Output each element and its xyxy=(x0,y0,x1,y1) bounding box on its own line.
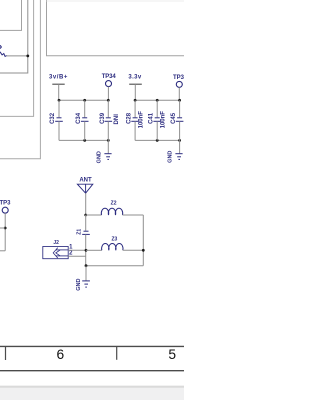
wire (J2 pin 1 to antenna node) xyxy=(68,249,86,251)
capacitor C41 100nF xyxy=(149,100,167,140)
svg-text:C34: C34 xyxy=(76,112,82,124)
junction (C41 top) xyxy=(156,99,159,102)
sheet border zone tick mid xyxy=(116,347,118,360)
svg-text:100nF: 100nF xyxy=(139,111,145,129)
junction (3.3v tap / C28) xyxy=(134,99,137,102)
svg-text:100nF: 100nF xyxy=(161,111,167,129)
junction (bottom bus / GND) xyxy=(85,264,88,267)
junction (C34 top) xyxy=(83,99,86,102)
wire (gray net, vertical x=34.5 turning left at y=114) xyxy=(0,0,34,116)
svg-text:3v/B+: 3v/B+ xyxy=(49,74,68,80)
wire (left group bottom bus to GND) xyxy=(59,139,108,141)
wire (3v/B+ stem) xyxy=(58,84,60,100)
wire (bottom return bus) xyxy=(86,265,143,267)
test point TP34 pad xyxy=(106,81,112,87)
svg-text:3.3v: 3.3v xyxy=(128,75,142,81)
hierarchical block outline (large, top centre-right) xyxy=(47,0,185,56)
svg-text:GND: GND xyxy=(76,278,82,290)
svg-text:C41: C41 xyxy=(149,112,155,124)
resistor R? (partial, cut at left edge) xyxy=(0,45,1,48)
sheet border outer line xyxy=(0,370,184,372)
ground (right group) xyxy=(168,140,183,162)
wire (3v/B+ rail top bus) xyxy=(59,99,108,101)
svg-text:GND: GND xyxy=(168,151,174,163)
junction (antenna node) xyxy=(84,214,87,217)
junction (J2 pin 1 / Z1 / Z3) xyxy=(85,249,88,252)
power symbol 3v/B+ bar xyxy=(52,83,64,85)
wire (branch to left edge at y=251) xyxy=(0,250,5,252)
junction (C39 top / TP34) xyxy=(107,99,110,102)
hierarchical block top edge (faint) xyxy=(47,0,185,2)
sheet border inner line xyxy=(0,345,184,347)
svg-text:C39: C39 xyxy=(100,112,106,124)
test point TP3x pad xyxy=(176,81,182,87)
junction (C45 bottom / GND) xyxy=(178,139,181,142)
inductor Z2 xyxy=(86,201,144,215)
sheet border zone tick left xyxy=(5,347,7,360)
svg-text:6: 6 xyxy=(56,347,64,362)
ground (left group) xyxy=(97,140,112,163)
svg-text:GND: GND xyxy=(97,151,103,163)
ground (main RF) xyxy=(76,266,90,291)
svg-text:TP34: TP34 xyxy=(102,74,117,80)
wire (resistor to vertical net) xyxy=(7,55,28,57)
junction (C39 bottom / GND) xyxy=(107,139,110,142)
wire (3.3v rail top bus) xyxy=(135,99,180,101)
capacitor Z1 xyxy=(77,215,90,266)
capacitor C45 (value cut at right edge) xyxy=(171,100,183,140)
svg-text:Z2: Z2 xyxy=(111,201,117,207)
junction (C41 bottom) xyxy=(156,139,159,142)
junction (3v/B+ tap / C32) xyxy=(58,99,61,102)
wire (gray net, vertical x=28 turning left at y=71) xyxy=(0,0,28,73)
svg-text:ANT: ANT xyxy=(79,178,92,184)
wire (gray net, vertical x=41.5 turning left at y=154) xyxy=(0,0,40,159)
wire (3.3v stem) xyxy=(134,84,136,100)
junction (C34 bottom) xyxy=(83,139,86,142)
wire (J2 pin 2 to ground net) xyxy=(68,255,86,257)
wire (right group bottom bus to GND) xyxy=(135,139,180,141)
test point TP3 pad xyxy=(2,207,8,213)
capacitor C34 xyxy=(76,100,88,140)
junction (Z3 right / vertical return) xyxy=(142,249,145,252)
capacitor C28 100nF xyxy=(126,100,144,140)
wire (antenna feed) xyxy=(85,193,87,215)
wire (TP3 down to off-sheet) xyxy=(4,213,6,251)
svg-text:C45: C45 xyxy=(171,112,177,124)
power symbol 3.3v bar xyxy=(129,83,142,85)
antenna ANT symbol xyxy=(77,184,92,193)
svg-text:C28: C28 xyxy=(126,112,132,124)
svg-text:Z1: Z1 xyxy=(77,229,83,235)
svg-text:5: 5 xyxy=(168,347,176,362)
connector J2 xyxy=(43,240,68,259)
wire (TP3x to 3.3v rail) xyxy=(178,87,180,100)
svg-text:TP3: TP3 xyxy=(173,75,184,81)
junction (TP3 branch) xyxy=(4,227,7,230)
wire (right vertical Z2 to bottom return) xyxy=(142,215,144,266)
svg-text:TP3: TP3 xyxy=(0,201,11,207)
junction (resistor wire / vertical net) xyxy=(26,55,29,58)
svg-text:C32: C32 xyxy=(50,112,56,124)
svg-text:Z3: Z3 xyxy=(111,236,117,242)
wire (branch to left edge at y=228) xyxy=(0,227,5,229)
inductor Z3 xyxy=(86,236,143,250)
wire (TP34 to 3v/B+ rail) xyxy=(107,87,109,101)
capacitor C32 xyxy=(50,100,63,140)
svg-text:DNI: DNI xyxy=(114,114,120,125)
capacitor C39 (DNI) xyxy=(100,100,120,140)
hierarchical block outline (top-left, partially off-sheet) xyxy=(0,0,22,30)
junction (C45 top / TP3x) xyxy=(178,99,181,102)
svg-text:J2: J2 xyxy=(53,240,59,246)
